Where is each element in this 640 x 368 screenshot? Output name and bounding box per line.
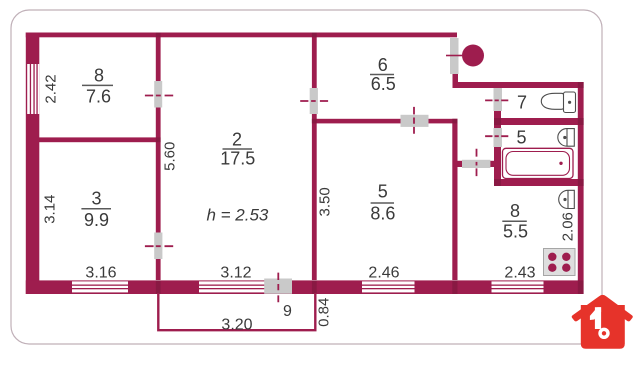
svg-text:7: 7 — [517, 92, 527, 112]
svg-text:2.43: 2.43 — [504, 265, 535, 282]
svg-text:5: 5 — [378, 182, 388, 202]
svg-text:7.6: 7.6 — [86, 86, 111, 106]
svg-text:2.06: 2.06 — [560, 212, 577, 241]
svg-text:6: 6 — [378, 55, 388, 75]
svg-text:9: 9 — [283, 303, 292, 320]
svg-text:3.12: 3.12 — [220, 265, 251, 282]
svg-text:9.9: 9.9 — [84, 210, 109, 230]
svg-text:2.42: 2.42 — [43, 74, 60, 103]
svg-text:h = 2.53: h = 2.53 — [206, 206, 268, 225]
svg-text:2.46: 2.46 — [368, 265, 399, 282]
svg-text:3.14: 3.14 — [42, 195, 59, 224]
svg-text:3.50: 3.50 — [317, 187, 334, 216]
svg-text:3.16: 3.16 — [85, 264, 116, 281]
svg-text:5.5: 5.5 — [503, 222, 528, 242]
svg-text:3: 3 — [91, 188, 101, 208]
svg-text:5.60: 5.60 — [162, 142, 179, 171]
svg-text:5: 5 — [516, 128, 526, 148]
svg-text:8: 8 — [510, 201, 520, 221]
svg-text:2: 2 — [232, 129, 242, 149]
svg-text:8: 8 — [94, 66, 104, 86]
svg-text:3.20: 3.20 — [221, 317, 252, 334]
svg-text:17.5: 17.5 — [220, 149, 255, 169]
svg-text:0.84: 0.84 — [315, 298, 332, 327]
svg-text:6.5: 6.5 — [371, 74, 396, 94]
svg-text:8.6: 8.6 — [370, 203, 395, 223]
